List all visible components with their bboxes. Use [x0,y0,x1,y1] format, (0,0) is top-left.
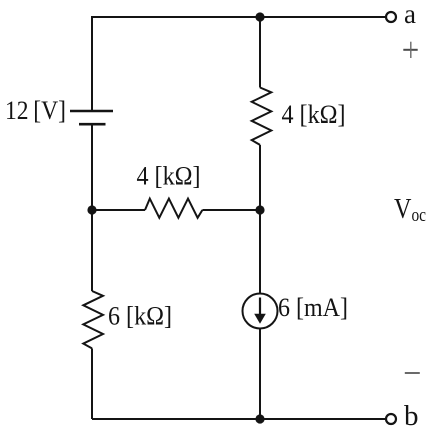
wire left vertical (node to 6k resistor) [91,210,93,291]
terminal b open circle [386,414,396,424]
wire left vertical (top, into battery) [91,16,93,110]
node bottom middle [255,414,264,423]
node top middle [255,12,264,21]
battery V1 long plate [70,110,113,113]
svg-text:4 [kΩ]: 4 [kΩ] [137,162,201,191]
wire top horizontal [92,16,386,18]
wire middle horizontal right segment [202,209,260,211]
wire middle vertical (mid node to current source) [259,210,261,294]
battery V1 short plate [79,123,106,126]
current source I1 circle [243,294,278,329]
svg-text:Voc: Voc [394,193,426,226]
svg-text:a: a [404,0,416,29]
wire middle vertical (4k resistor to mid node) [259,145,261,210]
wire left vertical (battery to mid node) [91,125,93,210]
wire bottom horizontal [92,418,386,420]
current source I1 arrow [254,298,266,324]
terminal a open circle [386,12,396,22]
wire left vertical (6k resistor to bottom) [91,348,93,419]
svg-text:6 [mA]: 6 [mA] [278,293,348,322]
wire middle horizontal left segment [92,209,145,211]
svg-text:4 [kΩ]: 4 [kΩ] [282,100,346,129]
plus sign [403,42,417,58]
resistor R1 4k vertical zigzag [252,88,272,145]
resistor R3 6k vertical zigzag [83,291,103,348]
node mid middle [255,205,264,214]
resistor R2 4k horizontal zigzag [145,199,202,218]
minus sign [405,372,420,374]
svg-text:b: b [404,400,419,432]
svg-text:6 [kΩ]: 6 [kΩ] [108,302,172,331]
wire middle vertical (top node to 4k resistor) [259,17,261,88]
wire middle vertical (current source to bottom node) [259,329,261,420]
svg-text:12 [V]: 12 [V] [5,96,66,125]
node mid left [87,205,96,214]
